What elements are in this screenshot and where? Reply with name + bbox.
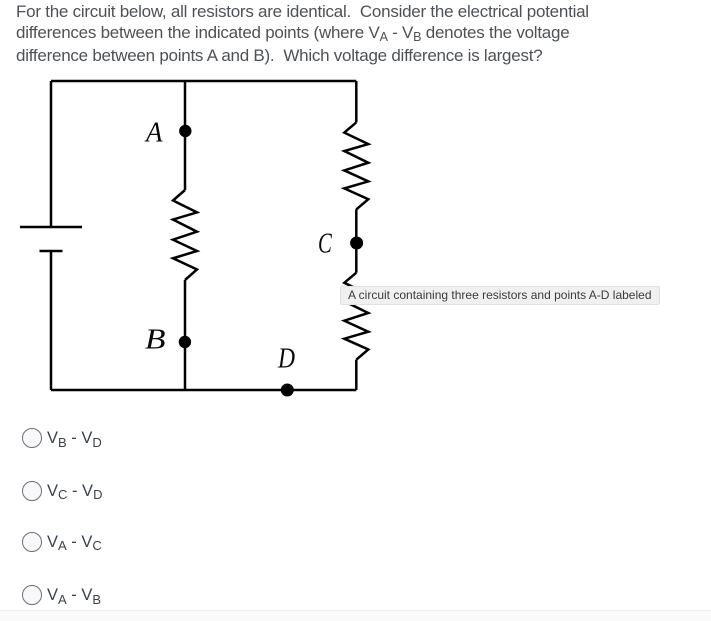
svg-text:D: D	[277, 343, 295, 375]
svg-text:C: C	[318, 227, 332, 259]
svg-text:A: A	[144, 117, 163, 149]
svg-text:B: B	[145, 324, 166, 356]
